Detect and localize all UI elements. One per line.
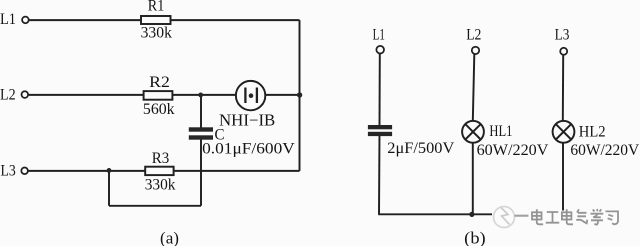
svg-text:2μF/500V: 2μF/500V: [387, 140, 454, 157]
svg-text:60W/220V: 60W/220V: [477, 142, 549, 159]
svg-text:0.01μF/600V: 0.01μF/600V: [202, 140, 295, 157]
svg-text:L1: L1: [0, 11, 16, 28]
svg-text:330k: 330k: [145, 176, 176, 193]
svg-text:L3: L3: [1, 162, 16, 179]
svg-text:HL1: HL1: [489, 123, 512, 140]
svg-text:60W/220V: 60W/220V: [570, 142, 639, 159]
svg-text:R3: R3: [152, 150, 170, 167]
svg-text:R2: R2: [149, 74, 170, 91]
svg-text:(a): (a): [160, 228, 179, 246]
svg-text:L2: L2: [0, 86, 16, 103]
svg-text:(b): (b): [464, 228, 486, 246]
svg-text:L2: L2: [466, 26, 481, 43]
svg-text:NHI−IB: NHI−IB: [219, 111, 275, 130]
svg-text:L1: L1: [373, 27, 385, 44]
svg-text:HL2: HL2: [579, 123, 606, 140]
svg-text:330k: 330k: [141, 24, 172, 41]
svg-text:R1: R1: [148, 0, 165, 15]
svg-text:L3: L3: [555, 26, 570, 43]
svg-text:560k: 560k: [143, 101, 175, 118]
